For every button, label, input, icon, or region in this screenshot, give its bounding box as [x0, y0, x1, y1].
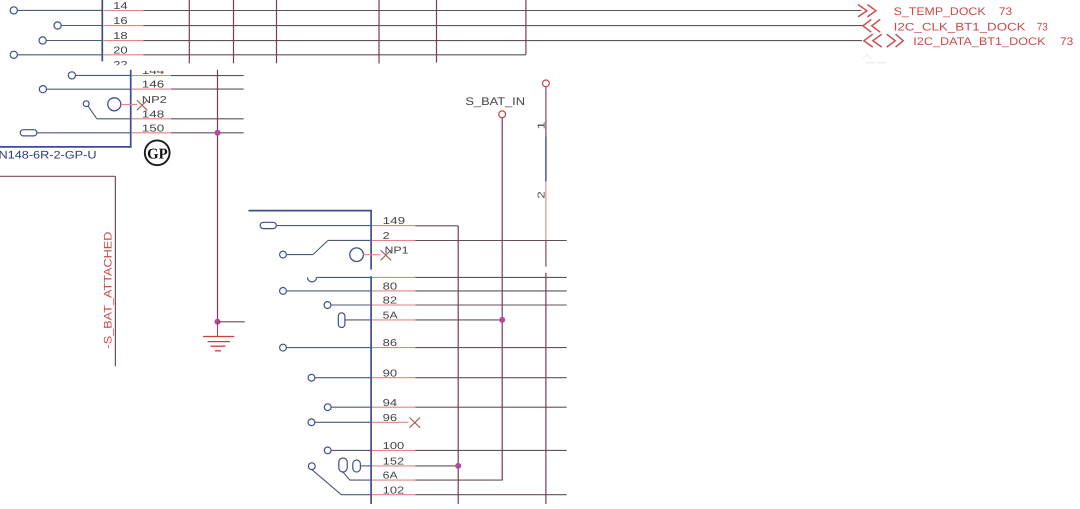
- pin circle S_BAT_IN: [499, 111, 506, 118]
- wire pin 148: [97, 118, 130, 120]
- pin 82 circle: [324, 302, 331, 309]
- port chevron I2C_CLK_BT1_DOCK: [863, 19, 880, 32]
- vertical bus wire A: [188, 0, 190, 63]
- vertical bus wire C: [276, 0, 278, 63]
- ground stub right: [218, 321, 245, 323]
- pin NP2 big circle: [108, 98, 121, 111]
- switch pin NP2 small circle: [83, 101, 89, 107]
- pin 149 stadium: [260, 222, 276, 228]
- wire pin 90: [315, 377, 370, 379]
- wire net row 16 / I2C_CLK_BT1_DOCK: [103, 25, 143, 27]
- pin 80 circle: [280, 288, 287, 295]
- wire pin 144: [76, 74, 131, 76]
- port chevron I2C_DATA_BT1_DOCK: [864, 34, 882, 47]
- wire net row 80: [372, 290, 415, 292]
- connector J1 body right edge: [101, 0, 103, 61]
- wire pin 146: [47, 88, 131, 90]
- pin 94 circle: [324, 404, 331, 411]
- pin 90 circle: [308, 374, 315, 381]
- pin 14 circle: [10, 7, 17, 14]
- part F1 pin 2 wire: [545, 182, 547, 241]
- wire pin 18: [46, 40, 102, 42]
- connector J2 body bottom edge: [0, 146, 132, 148]
- svg-text:NP2: NP2: [142, 95, 168, 106]
- wire arc pin: [317, 276, 371, 278]
- wire pin 5A: [345, 319, 370, 321]
- wire pin 152: [360, 465, 370, 467]
- part F1 pin 1 wire: [545, 87, 547, 137]
- part F1 body: [545, 137, 547, 182]
- wire net row 102: [372, 494, 415, 496]
- wire pin 14: [17, 9, 102, 11]
- no-connect X 96: [410, 418, 421, 428]
- pin 100 circle: [324, 447, 331, 454]
- svg-text:NP1: NP1: [385, 245, 410, 256]
- wire pin 102: [312, 470, 371, 495]
- pin 20 circle: [10, 51, 17, 58]
- pin NP1 big circle: [350, 248, 364, 262]
- ground stem: [217, 322, 219, 337]
- svg-text:N148-6R-2-GP-U: N148-6R-2-GP-U: [0, 150, 97, 162]
- connector J2 (battery conn) body right edge: [130, 70, 132, 148]
- svg-text:73: 73: [1037, 21, 1048, 33]
- wire pin 86: [286, 347, 370, 349]
- pin 96 circle: [308, 419, 315, 426]
- connector J3 body top edge: [249, 210, 372, 212]
- svg-text:2: 2: [537, 191, 548, 199]
- wire net row 100: [372, 449, 415, 451]
- port chevron S_TEMP_DOCK: [858, 5, 876, 17]
- switch blade pin 2: [313, 240, 328, 254]
- wire net row 86: [372, 347, 415, 349]
- wire net row 2: [372, 240, 415, 242]
- wire pin 150: [37, 132, 130, 134]
- wire net row 152: [372, 465, 415, 467]
- wire S_BAT_IN vertical: [501, 118, 503, 480]
- wire pin 20: [17, 54, 102, 56]
- svg-text:I2C_CLK_BT1_DOCK: I2C_CLK_BT1_DOCK: [894, 21, 1027, 33]
- vertical bus wire D: [378, 0, 380, 63]
- wire pin 80: [286, 290, 370, 292]
- pin arc contact: [308, 277, 317, 282]
- junction dot 150: [215, 130, 221, 136]
- wire net row 150: [132, 132, 171, 134]
- wire pin 82: [331, 304, 370, 306]
- pin 152 stadium b: [353, 460, 361, 472]
- wire net row arc: [372, 276, 415, 278]
- pin 16 circle: [54, 22, 61, 29]
- NP1 stub: [363, 254, 380, 256]
- vertical bus wire B: [233, 0, 235, 63]
- pin 150 stadium: [20, 130, 37, 136]
- pin 18 circle: [39, 37, 46, 44]
- wire net row 94: [372, 406, 415, 408]
- svg-text:73: 73: [1060, 36, 1073, 48]
- wire pin 94: [331, 406, 370, 408]
- wire pin 100: [331, 449, 370, 451]
- svg-text:I2C_DATA_BT1_DOCK: I2C_DATA_BT1_DOCK: [913, 36, 1046, 48]
- NP2 stub: [121, 103, 137, 105]
- svg-text:S_BAT_IN: S_BAT_IN: [465, 96, 525, 108]
- vertical bus wire E: [436, 0, 438, 63]
- svg-text:-S_BAT_ATTACHED: -S_BAT_ATTACHED: [103, 232, 115, 349]
- wire net row 82: [372, 304, 415, 306]
- switch wire pin 2: [286, 254, 313, 256]
- svg-text:73: 73: [999, 6, 1012, 18]
- box S_BAT_ATTACHED right edge: [114, 176, 116, 366]
- wire net row 96 stub: [372, 421, 409, 423]
- ghost marks: [866, 62, 875, 64]
- wire below part F1: [545, 273, 547, 504]
- connector J3 body right edge (part A): [370, 211, 372, 270]
- pin 146 circle: [39, 86, 46, 93]
- pin 86 circle: [280, 344, 287, 351]
- svg-text:1: 1: [537, 121, 548, 130]
- ground symbol: [203, 337, 234, 351]
- vertical wire to ground: [217, 70, 219, 322]
- box S_BAT_ATTACHED top edge: [0, 175, 115, 177]
- pin 144 circle: [68, 72, 75, 79]
- wire pin 149: [276, 225, 370, 227]
- svg-text:GP: GP: [147, 147, 168, 163]
- wire net row 5A: [372, 319, 415, 321]
- wire net row 20: [103, 54, 143, 56]
- pin 102 circle: [308, 463, 315, 470]
- wire net row 90: [372, 377, 415, 379]
- wire net row 144: [132, 75, 171, 77]
- vertical wire net 149: [457, 226, 459, 504]
- wire pin 16: [61, 25, 102, 27]
- switch blade NP2-148: [88, 106, 97, 119]
- wire net row 6A: [372, 479, 415, 481]
- junction dot 5A: [499, 317, 505, 323]
- svg-text:S_TEMP_DOCK: S_TEMP_DOCK: [894, 6, 987, 18]
- pin 152 stadium a: [339, 458, 347, 472]
- wire net row 18 / I2C_DATA_BT1_DOCK: [103, 40, 143, 42]
- part F1 top pin circle: [543, 80, 550, 87]
- wire net row 149: [372, 225, 415, 227]
- wire pin 2: [328, 239, 370, 241]
- no-connect X NP2: [137, 100, 148, 110]
- vertical bus wire F (corner with row 20): [525, 0, 527, 55]
- GP logo: [145, 140, 170, 165]
- wire net row 146: [132, 88, 171, 90]
- junction dot ground: [215, 319, 221, 325]
- junction dot 152: [455, 463, 461, 469]
- pin 5A stadium: [338, 313, 345, 328]
- wire pin 6A: [343, 472, 371, 480]
- no-connect X NP1: [381, 250, 392, 260]
- wire pin 96: [315, 421, 370, 423]
- wire net row 14 / S_TEMP_DOCK: [103, 10, 143, 12]
- switch pin 2 circle: [280, 251, 287, 258]
- wire net row 148: [132, 118, 171, 120]
- connector J3 body right edge (part B): [370, 276, 372, 504]
